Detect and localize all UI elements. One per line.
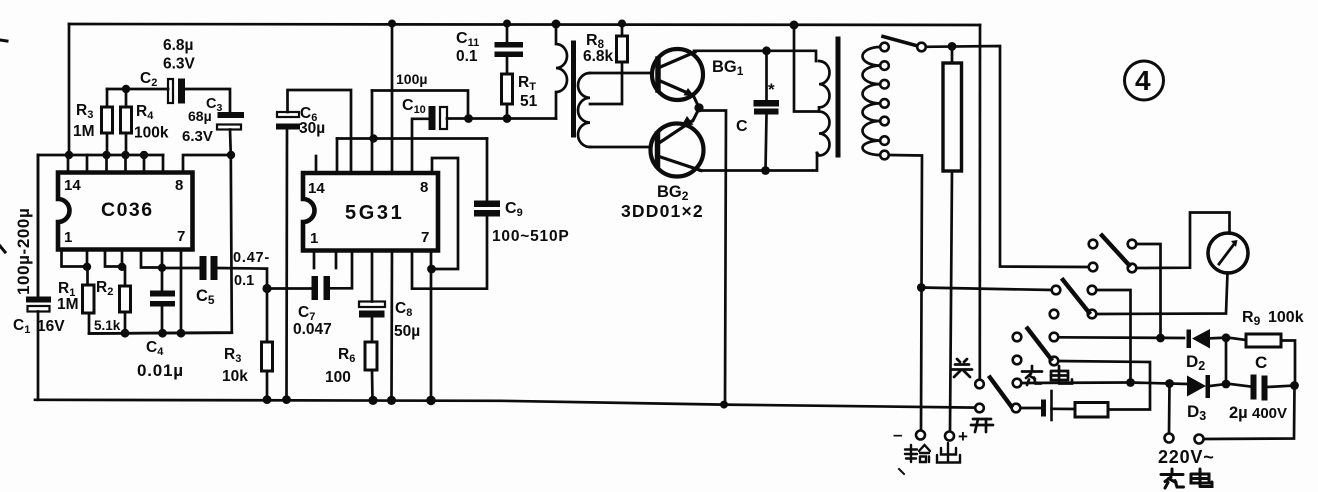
- capacitor Cstar leads: [765, 51, 768, 100]
- svg-text:BG1: BG1: [712, 58, 744, 78]
- label hanzi chu (output): [947, 443, 949, 461]
- node dot y333 C4: [158, 329, 167, 338]
- svg-text:6.3V: 6.3V: [163, 56, 196, 73]
- svg-text:2µ: 2µ: [1229, 404, 1248, 422]
- node dot y118 x469: [464, 114, 473, 123]
- capacitor C6 bottom lead to ground bus: [285, 130, 288, 400]
- node dot pin5 net: [158, 264, 166, 272]
- wire emitter junction down to ground bus: [699, 108, 726, 405]
- svg-text:R3: R3: [224, 346, 241, 365]
- svg-text:BG2: BG2: [657, 183, 689, 203]
- resistor R1 leads: [86, 267, 89, 285]
- capacitor C2 plates: [168, 79, 173, 103]
- node dot y118 x507: [503, 114, 512, 123]
- switch SW4 lever: [990, 378, 1011, 407]
- wire pin11 to C9 bottom: [412, 217, 487, 289]
- capacitor C6 plates: [277, 112, 299, 117]
- node dot bus B x231: [227, 151, 235, 159]
- label hanzi shu (output): [910, 445, 912, 462]
- capacitor Cstar plates: [754, 100, 780, 107]
- wire D3 net: [1131, 383, 1187, 385]
- selector pivot circle: [917, 43, 926, 52]
- switch SW1 lever: [1102, 236, 1129, 266]
- wire BG1 collector to primary: [694, 51, 816, 61]
- switch SW3 lever: [1028, 329, 1052, 360]
- svg-text:R4: R4: [136, 103, 154, 122]
- 5G31 top pin stubs: [315, 156, 318, 173]
- stray mark left edge mid: [0, 246, 5, 252]
- secondary tap stubs: [880, 46, 881, 49]
- IC U1 C036 body: [58, 173, 193, 250]
- wire D2 junction down to C junction: [1225, 338, 1228, 380]
- node dot bus A x126: [121, 151, 129, 159]
- capacitor C1 plates: [26, 297, 51, 303]
- svg-text:C2: C2: [140, 70, 157, 89]
- node dot pin3 net: [118, 263, 126, 271]
- node dot D3 net terminal branch: [1165, 379, 1174, 388]
- node dot bus A x107: [102, 151, 110, 159]
- switch SW2 lever: [1063, 280, 1089, 313]
- svg-text:4: 4: [1135, 65, 1151, 96]
- svg-text:220V~: 220V~: [1158, 447, 1215, 467]
- resistor R4 leads: [125, 89, 128, 107]
- resistor Rs top lead: [951, 46, 954, 63]
- wire pin5 net to C5: [162, 267, 200, 270]
- wire C10 right to RT to winding y118: [447, 117, 556, 120]
- resistor R4 100k body: [121, 107, 132, 133]
- node dot bus emitter line: [720, 401, 728, 409]
- svg-text:R9: R9: [1242, 309, 1261, 328]
- wire battery to fuse: [1052, 407, 1076, 410]
- node dot C left junction: [1222, 380, 1231, 389]
- wire pin to C7 right plate: [331, 251, 352, 289]
- meter needle: [1219, 244, 1235, 265]
- node dot bus pin8net: [426, 396, 436, 406]
- wire SW2 left to minus column: [921, 288, 1051, 291]
- node dot bus pin12: [387, 396, 396, 405]
- capacitor C3 plates: [218, 112, 245, 118]
- wire C10 box top y90: [372, 91, 468, 119]
- svg-text:0.47-: 0.47-: [233, 250, 270, 266]
- capacitor C10 left lead: [412, 119, 429, 173]
- wire pin to C9 top y138: [337, 137, 487, 140]
- wire C junction to 220V terminal: [1204, 386, 1295, 440]
- resistor R8 top lead: [621, 24, 624, 37]
- svg-text:100µ: 100µ: [396, 71, 427, 87]
- svg-text:5.1k: 5.1k: [94, 318, 121, 333]
- node dot output minus branch: [917, 283, 926, 292]
- wire pin8net to ground bus: [430, 251, 433, 401]
- label hanzi chong (charge sw): [1031, 366, 1034, 370]
- node dot y333 pin7: [177, 329, 186, 338]
- wire C5 output 0.47 line: [218, 268, 268, 289]
- wire base winding centre tap to R8: [590, 62, 622, 104]
- 5G31 bottom pin stubs: [313, 251, 316, 269]
- capacitor C8 plates: [359, 302, 385, 308]
- wire left vertical from rail to bus: [68, 24, 71, 155]
- svg-text:7: 7: [177, 228, 185, 245]
- node dot selector wire: [948, 42, 957, 51]
- svg-text:0.1: 0.1: [234, 273, 254, 289]
- transformer T2 secondary winding loops: [862, 47, 880, 155]
- wire selector to right column: [926, 46, 1089, 267]
- diode D3: [1187, 376, 1206, 397]
- svg-text:1M: 1M: [73, 123, 95, 140]
- svg-text:68µ: 68µ: [188, 108, 212, 124]
- svg-text:R2: R2: [96, 279, 113, 298]
- transformer T1 feedback winding: [556, 24, 567, 119]
- C036 top pin stubs: [67, 155, 70, 172]
- circled 4 ring: [1125, 61, 1164, 100]
- wire SW4 to battery: [1021, 407, 1042, 410]
- svg-text:C10: C10: [402, 97, 426, 116]
- svg-text:0.047: 0.047: [293, 321, 332, 338]
- svg-text:R6: R6: [338, 346, 355, 365]
- node dot x431 y269: [427, 265, 436, 274]
- wire ground return y333: [89, 331, 232, 334]
- capacitor C8 leads: [371, 251, 374, 302]
- wire SW3 to D2 net: [1059, 336, 1185, 339]
- wire SW1 to meter branch: [1137, 213, 1230, 269]
- node dot bus R3b: [263, 395, 272, 404]
- selector switch arm: [883, 37, 918, 47]
- svg-text:C: C: [736, 118, 748, 135]
- resistor RT body: [502, 74, 513, 104]
- node dot y138 x374: [369, 134, 377, 142]
- resistor R9 body: [1246, 334, 1281, 347]
- node dot rail at x622: [618, 20, 626, 28]
- switch SW3 charge contacts: [1013, 333, 1022, 342]
- svg-text:5G31: 5G31: [345, 202, 404, 224]
- svg-text:C4: C4: [146, 339, 164, 358]
- capacitor C9 plates: [474, 201, 500, 208]
- svg-text:100~510P: 100~510P: [492, 228, 570, 245]
- transistor Q2 BG2: [651, 124, 704, 177]
- svg-text:C9: C9: [505, 200, 523, 219]
- label hanzi dian (220V charge): [1191, 474, 1209, 483]
- node dot collector wire Cstar: [762, 46, 771, 55]
- switch SW2 contacts: [1052, 286, 1061, 295]
- svg-text:100µ-200µ: 100µ-200µ: [14, 208, 33, 295]
- svg-text:–: –: [893, 425, 902, 444]
- svg-text:RT: RT: [518, 74, 536, 93]
- svg-text:3DD01×2: 3DD01×2: [621, 201, 704, 221]
- svg-text:0.01µ: 0.01µ: [137, 361, 184, 380]
- terminal 220V left: [1165, 434, 1174, 443]
- switch SW1 contacts: [1089, 240, 1098, 249]
- diode D2: [1187, 330, 1192, 349]
- svg-text:8: 8: [420, 179, 428, 196]
- node dot y333 R2: [121, 329, 130, 338]
- wire SW2 to meter bottom: [1097, 273, 1228, 315]
- resistor R6 bottom lead: [371, 370, 374, 400]
- node dot bus A x69: [65, 151, 73, 159]
- svg-text:C036: C036: [101, 199, 154, 221]
- svg-text:16V: 16V: [37, 318, 65, 335]
- node dot D2 net x1160: [1156, 334, 1165, 343]
- svg-text:100: 100: [325, 369, 351, 386]
- transformer T2 core: [836, 39, 841, 155]
- svg-text:0.1: 0.1: [456, 48, 478, 65]
- transformer T1 core: [571, 43, 576, 135]
- wire pin8 wraparound 5G31: [432, 158, 458, 269]
- node dot emitter junction: [694, 103, 703, 112]
- capacitor C11 leads: [506, 24, 509, 43]
- capacitor C9 top lead: [486, 139, 489, 201]
- svg-text:30µ: 30µ: [299, 120, 325, 137]
- capacitor C4 plates: [150, 291, 175, 297]
- resistor R2 5.1k body: [120, 286, 131, 312]
- wire SW2 to D3 column: [1097, 290, 1131, 383]
- svg-text:1: 1: [310, 230, 318, 247]
- svg-text:7: 7: [421, 229, 429, 246]
- node dot D2 R9 junction: [1222, 333, 1231, 342]
- meter M body: [1208, 233, 1248, 273]
- switch SW4 power contacts: [975, 380, 984, 389]
- resistor R6 body: [365, 342, 377, 370]
- terminal 220V right: [1195, 435, 1204, 444]
- svg-text:100k: 100k: [1268, 309, 1304, 326]
- stray mark bottom: [899, 469, 904, 474]
- wire secondary bottom to output minus: [889, 155, 922, 431]
- svg-text:C: C: [1255, 353, 1267, 372]
- svg-text:+: +: [958, 427, 968, 446]
- node dot collector wire Cstar bottom: [761, 166, 770, 175]
- wire to 220V terminal: [1168, 384, 1171, 434]
- resistor R2 leads: [124, 267, 127, 286]
- wire R3 top to C2: [107, 88, 168, 91]
- capacitor C10 plates: [429, 106, 436, 130]
- stray mark left edge top: [0, 40, 7, 41]
- capacitor C 2u400V plates: [1251, 375, 1257, 400]
- svg-text:C1: C1: [13, 317, 30, 336]
- svg-text:D3: D3: [1187, 402, 1206, 423]
- wire bus A drop to C1: [37, 155, 40, 297]
- wire C2 to C3: [185, 89, 230, 113]
- node dot bus R6: [368, 396, 377, 405]
- svg-text:C5: C5: [196, 287, 215, 307]
- node dot rail at x794: [790, 21, 799, 30]
- capacitor C4 leads: [161, 268, 164, 291]
- svg-text:1M: 1M: [57, 296, 79, 313]
- resistor R8 body: [617, 36, 628, 62]
- capacitor C11 plates: [495, 42, 524, 48]
- resistor R3 leads: [106, 89, 109, 107]
- wire SW4 to D3 net: [1022, 381, 1127, 384]
- node dot rail at x507: [503, 20, 511, 28]
- svg-text:*: *: [768, 80, 775, 99]
- wire 5G31 pin12 to top rail: [391, 23, 394, 173]
- label hanzi guan (off): [957, 359, 960, 362]
- resistor R3b 10k body: [262, 342, 273, 371]
- battery cell plates: [1041, 400, 1046, 417]
- node dot C right junction: [1290, 381, 1299, 390]
- resistor R3 1M body: [102, 107, 113, 133]
- svg-text:6.8k: 6.8k: [583, 48, 614, 65]
- transformer T2 primary winding: [817, 61, 830, 156]
- node dot pin1 net: [83, 263, 91, 271]
- wire SW3 to fuse: [1059, 361, 1151, 410]
- svg-text:6.8µ: 6.8µ: [163, 37, 193, 54]
- capacitor C leads: [1230, 384, 1251, 387]
- label hanzi chong (220V charge): [1171, 469, 1174, 473]
- resistor R9 leads: [1230, 338, 1246, 340]
- wire junction to C7: [267, 287, 312, 290]
- label hanzi dian (charge sw): [1051, 371, 1068, 380]
- capacitor C1 leads: [37, 155, 40, 297]
- svg-text:D2: D2: [1186, 352, 1205, 373]
- wire bottom ground bus: [35, 400, 976, 408]
- wire pin12 to ground bus: [390, 251, 393, 401]
- resistor RT bottom lead: [506, 104, 509, 119]
- wire C3 to bus B and down: [89, 130, 232, 334]
- svg-text:10k: 10k: [222, 368, 248, 385]
- svg-text:14: 14: [308, 180, 325, 197]
- svg-text:400V: 400V: [1252, 405, 1287, 422]
- transistor Q1 BG1: [652, 49, 703, 100]
- svg-text:14: 14: [64, 177, 81, 194]
- wire top supply rail: [69, 24, 980, 25]
- wire top rail right drop: [978, 25, 981, 380]
- svg-text:51: 51: [520, 93, 538, 110]
- C036 bottom pin stubs: [62, 250, 88, 267]
- secondary tap circles: [880, 43, 889, 52]
- svg-text:8: 8: [175, 177, 183, 194]
- resistor Rs bottom lead: [950, 171, 952, 431]
- svg-text:100k: 100k: [134, 125, 169, 142]
- fuse body: [1075, 403, 1108, 418]
- node dot D3 net x1130: [1126, 378, 1135, 387]
- svg-text:50µ: 50µ: [394, 323, 420, 340]
- transformer T1 base winding: [578, 73, 590, 147]
- node dot 0.47 junction: [262, 284, 271, 293]
- resistor Rs tall body: [943, 63, 962, 171]
- wire base winding top to BG1 base: [590, 72, 652, 75]
- wire base winding bottom to BG2 base: [590, 146, 651, 149]
- wire SW1 to D2 column: [1137, 244, 1161, 338]
- label hanzi kai (on): [973, 418, 991, 421]
- wire C036 pin8 bus B: [183, 155, 231, 172]
- node dot bus A x144: [140, 151, 148, 159]
- capacitor C5 plates: [200, 256, 207, 280]
- node dot rail at x556: [552, 20, 561, 29]
- terminal output plus: [945, 432, 954, 441]
- node dot rail at x392: [388, 20, 396, 28]
- svg-text:1: 1: [64, 229, 72, 246]
- wire rail to primary centre tap: [794, 25, 819, 112]
- terminal output minus: [916, 431, 925, 440]
- wire BG2 collector to primary bottom: [700, 153, 817, 171]
- svg-text:C8: C8: [395, 300, 412, 319]
- resistor R1 1M body: [83, 285, 95, 313]
- wire C036 top bus A: [38, 154, 163, 157]
- svg-text:R3: R3: [76, 102, 93, 121]
- node dot at R4 top: [122, 85, 130, 93]
- svg-text:6.3V: 6.3V: [182, 128, 213, 145]
- resistor R3b leads: [266, 289, 269, 343]
- capacitor C6 top lead to 5G31: [288, 90, 352, 173]
- node dot bus C6 lead: [282, 395, 291, 404]
- svg-text:C11: C11: [456, 30, 479, 49]
- IC U2 5G31 body: [303, 173, 438, 251]
- capacitor C7 plates: [312, 276, 319, 300]
